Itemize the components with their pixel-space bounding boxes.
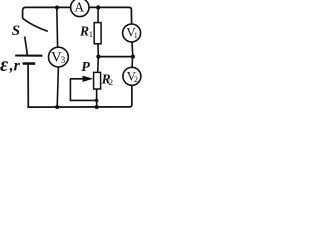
wire R1 bottom lead bbox=[97, 44, 100, 57]
wire top-left corner to ammeter bbox=[23, 7, 71, 18]
wire V2 bottom lead bbox=[129, 85, 132, 107]
wire V2 top lead bbox=[131, 57, 133, 68]
wire R2 top lead bbox=[97, 57, 100, 73]
ammeter A bbox=[71, 0, 89, 17]
wire top-right corner V1 top lead bbox=[129, 7, 131, 24]
voltmeter V2 bbox=[123, 67, 141, 85]
node mid-left junction bbox=[96, 55, 100, 59]
node wiper return junction bbox=[95, 99, 99, 103]
svg-text:1: 1 bbox=[89, 29, 93, 39]
wire R1 top lead bbox=[97, 7, 99, 22]
wire R2 bottom lead bbox=[96, 89, 98, 107]
svg-text:ε: ε bbox=[0, 54, 9, 76]
node mid-right junction bbox=[131, 55, 135, 59]
wiper P arrow bbox=[70, 60, 93, 82]
node V3 bottom junction bbox=[55, 105, 59, 109]
battery eps,r long plate bbox=[15, 54, 42, 56]
svg-text:2: 2 bbox=[134, 75, 138, 84]
svg-text:A: A bbox=[74, 0, 84, 15]
wire battery to bottom bbox=[27, 64, 29, 108]
resistor R1 bbox=[79, 23, 101, 44]
battery eps,r short plate bbox=[23, 62, 36, 65]
svg-text:P: P bbox=[81, 60, 90, 75]
switch S blade bbox=[23, 19, 48, 32]
wire V3 bottom lead bbox=[57, 67, 58, 107]
wire V1 bottom lead bbox=[131, 42, 134, 57]
wire switch lower contact to battery bbox=[25, 37, 28, 56]
wire middle rail bbox=[98, 56, 133, 58]
rheostat R2 bbox=[94, 71, 113, 89]
svg-text:2: 2 bbox=[109, 77, 113, 87]
svg-text:3: 3 bbox=[61, 55, 66, 65]
voltmeter V3 bbox=[49, 47, 69, 67]
svg-text:,r: ,r bbox=[9, 57, 21, 74]
wire bottom rail bbox=[27, 106, 130, 108]
svg-text:1: 1 bbox=[134, 31, 138, 40]
svg-text:R: R bbox=[79, 24, 89, 39]
voltmeter V1 bbox=[123, 24, 141, 42]
wire wiper return bbox=[70, 79, 96, 101]
node R1 branch top junction bbox=[96, 5, 100, 9]
svg-text:S: S bbox=[12, 23, 20, 39]
node V3 top junction bbox=[55, 6, 59, 10]
wire V3 top lead bbox=[56, 8, 59, 48]
node R2 bottom junction bbox=[95, 105, 99, 109]
wire ammeter to top-right corner bbox=[89, 6, 130, 8]
